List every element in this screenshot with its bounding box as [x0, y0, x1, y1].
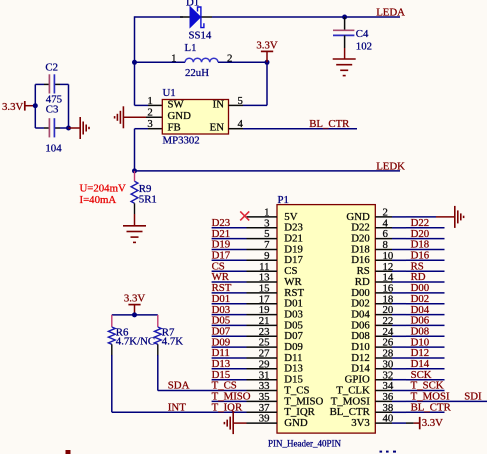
svg-text:PIN_Header_40PIN: PIN_Header_40PIN	[268, 439, 341, 449]
wire T_MISO net	[212, 400, 247, 402]
svg-text:3.3V: 3.3V	[2, 101, 23, 113]
svg-text:INT: INT	[168, 402, 186, 414]
pin 25 (D09) of P1	[247, 337, 303, 353]
svg-text:104: 104	[45, 142, 62, 154]
pin 7 (D19) of P1	[247, 239, 303, 255]
wire SDI net	[406, 400, 487, 402]
wire SDA net	[158, 390, 247, 392]
svg-text:LEDA: LEDA	[376, 7, 405, 19]
wire D04 net	[406, 314, 445, 316]
svg-text:EN: EN	[210, 122, 225, 134]
no-ERC marker on pin 1	[240, 211, 249, 220]
wire C3 bottom branch	[35, 127, 44, 129]
resistor R7	[154, 315, 183, 348]
op-amp U1 MP3302 body	[147, 87, 243, 146]
svg-text:U1: U1	[163, 87, 176, 99]
pin 1 (5V) of P1	[247, 207, 298, 223]
svg-text:C4: C4	[356, 28, 369, 40]
svg-text:I=40mA: I=40mA	[80, 194, 117, 206]
ground below R9	[123, 214, 146, 242]
wire D14 net	[406, 368, 445, 370]
svg-text:C3: C3	[46, 104, 59, 116]
wire D02 net	[406, 303, 445, 305]
pin 16 (D00) of P1	[351, 283, 406, 299]
svg-text:C2: C2	[45, 61, 58, 73]
svg-text:3.3V: 3.3V	[256, 40, 277, 52]
node junction 3.3V / C2C3	[33, 103, 38, 108]
wire D21 net	[212, 238, 247, 240]
pin 39 (GND) of P1	[247, 413, 308, 429]
node junction C3 / ground	[66, 126, 71, 131]
pin 5 (D21) of P1	[247, 228, 303, 244]
pin 13 (WR) of P1	[247, 272, 303, 288]
svg-text:LEDK: LEDK	[376, 161, 405, 173]
pin 15 (RST) of P1	[247, 283, 305, 299]
svg-text:1: 1	[171, 52, 176, 64]
wire D03 net	[212, 314, 247, 316]
svg-text:22uH: 22uH	[185, 67, 209, 79]
svg-text:BL_CTR: BL_CTR	[411, 402, 452, 414]
svg-text:MP3302: MP3302	[163, 134, 200, 146]
wire D07 net	[212, 335, 247, 337]
wire D09 net	[212, 346, 247, 348]
wire D13 net	[212, 368, 247, 370]
connector P1 body	[277, 205, 375, 434]
pin 22 (D06) of P1	[351, 315, 406, 331]
svg-text:3: 3	[147, 118, 152, 130]
power 3.3V above R6R7	[124, 293, 145, 315]
wire SW pin net	[134, 62, 136, 105]
svg-text:40: 40	[383, 413, 394, 425]
wire pin2 to ground	[406, 216, 436, 218]
svg-text:L1: L1	[185, 42, 197, 54]
ground at pin 2	[436, 206, 464, 228]
svg-text:U=204mV: U=204mV	[80, 183, 126, 195]
wire FB pin net	[134, 129, 136, 171]
annotation U=204mV I=40mA	[80, 183, 126, 207]
svg-text:2: 2	[227, 52, 232, 64]
wire D05 net	[212, 324, 247, 326]
svg-text:3.3V: 3.3V	[422, 417, 443, 429]
pin 29 (D13) of P1	[247, 358, 303, 374]
svg-text:GND: GND	[168, 110, 192, 122]
svg-text:2: 2	[147, 107, 152, 119]
ground right of C3	[69, 117, 90, 139]
wire INT net	[112, 411, 247, 413]
wire C2C3 right vertical	[68, 84, 70, 128]
svg-text:P1: P1	[278, 194, 289, 206]
wire R7 to SDA row	[157, 344, 159, 356]
wire D08 net	[406, 335, 445, 337]
pin 35 (T_MISO) of P1	[247, 391, 324, 407]
wire R6R7 top bus	[112, 314, 158, 316]
svg-text:GND: GND	[284, 417, 308, 429]
svg-text:5R1: 5R1	[139, 193, 157, 205]
power 3.3V left	[2, 101, 35, 113]
pin 26 (D10) of P1	[351, 337, 406, 353]
wire CS net	[212, 270, 247, 272]
pin 10 (D16) of P1	[351, 250, 406, 266]
svg-text:102: 102	[356, 41, 372, 53]
pin 6 (D20) of P1	[351, 228, 406, 244]
ground at pin 39	[224, 412, 246, 434]
svg-text:SS14: SS14	[189, 30, 212, 42]
pin 2 (GND) of P1	[346, 207, 406, 223]
svg-text:4.7K/NC: 4.7K/NC	[116, 336, 155, 348]
pin 34 (T_CLK) of P1	[336, 380, 406, 396]
pin 32 (GPIO) of P1	[345, 369, 406, 385]
resistor R6	[108, 315, 155, 348]
partial power mark bottom left	[66, 450, 71, 454]
ground below C4	[333, 48, 356, 76]
wire D16 net	[406, 259, 445, 261]
pin 8 (D18) of P1	[351, 239, 406, 255]
pin 33 (T_CS) of P1	[247, 380, 310, 396]
resistor R9	[131, 171, 157, 214]
wire EN pin net BL_CTR	[229, 128, 244, 130]
svg-text:SW: SW	[168, 99, 185, 111]
pin 27 (D11) of P1	[247, 348, 303, 364]
wire D17 net	[212, 259, 247, 261]
node junction left of L1	[132, 60, 137, 65]
diode D1	[180, 0, 212, 42]
pin 21 (D05) of P1	[247, 315, 303, 331]
pin 24 (D08) of P1	[351, 326, 406, 342]
wire D10 net	[406, 346, 445, 348]
pin 11 (CS) of P1	[247, 261, 298, 277]
wire top rail left segment	[135, 16, 184, 18]
pin 37 (T_IQR) of P1	[247, 402, 316, 418]
capacitor C2	[45, 61, 62, 105]
power 3.3V at pin 40	[406, 417, 443, 429]
wire D15 net	[212, 379, 247, 381]
svg-text:T_IQR: T_IQR	[212, 402, 243, 414]
svg-text:3V3: 3V3	[351, 417, 370, 429]
wire D20 net	[406, 238, 445, 240]
power 3.3V above L1 right	[256, 40, 277, 63]
pin 19 (D03) of P1	[247, 304, 303, 320]
wire D12 net	[406, 357, 445, 359]
wire C2C3 left vertical	[34, 84, 36, 128]
pin 20 (D04) of P1	[351, 304, 406, 320]
svg-text:SDI: SDI	[464, 391, 482, 403]
svg-text:IN: IN	[213, 99, 225, 111]
wire D11 net	[212, 357, 247, 359]
pin 18 (D02) of P1	[351, 293, 406, 309]
partial text marks bottom center-right	[380, 451, 383, 453]
wire BL_CTR net	[406, 411, 445, 413]
wire RS net	[406, 270, 445, 272]
wire WR net	[212, 281, 247, 283]
svg-text:FB: FB	[168, 122, 181, 134]
wire D23 net	[212, 227, 247, 229]
pin 3 (D23) of P1	[247, 217, 303, 233]
svg-text:BL_CTR: BL_CTR	[309, 118, 350, 130]
pin 31 (D15) of P1	[247, 369, 303, 385]
wire top rail right segment	[212, 16, 400, 18]
wire D22 net	[406, 227, 445, 229]
wire R6 to INT row	[111, 344, 113, 356]
svg-text:SDA: SDA	[168, 380, 190, 392]
wire D00 net	[406, 292, 445, 294]
node junction FB/R9	[132, 168, 137, 173]
node junction C4 tap	[342, 15, 347, 20]
pin 38 (BL_CTR) of P1	[330, 402, 406, 418]
pin 9 (D17) of P1	[247, 250, 304, 266]
wire D01 net	[212, 303, 247, 305]
pin 14 (RD) of P1	[355, 272, 406, 288]
capacitor C4	[333, 17, 372, 53]
wire D06 net	[406, 324, 445, 326]
pin 23 (D07) of P1	[247, 326, 304, 342]
wire T_SCK net	[406, 390, 445, 392]
pin 40 (3V3) of P1	[351, 413, 406, 429]
wire L1 row	[135, 61, 186, 63]
wire RD net	[406, 281, 445, 283]
node junction right of L1	[265, 60, 270, 65]
inductor L1	[171, 42, 232, 79]
capacitor C3	[45, 104, 62, 155]
svg-text:3.3V: 3.3V	[124, 293, 145, 305]
pin 17 (D01) of P1	[247, 293, 303, 309]
wire C2 top branch	[35, 83, 44, 85]
pin 36 (T_MOSI) of P1	[331, 391, 406, 407]
svg-text:39: 39	[259, 413, 270, 425]
node junction R6R7 top	[132, 312, 137, 317]
wire D18 net	[406, 249, 445, 251]
wire RST net	[212, 292, 247, 294]
wire LEDK net	[135, 170, 401, 172]
pin 30 (D14) of P1	[351, 358, 406, 374]
svg-text:D1: D1	[186, 0, 199, 9]
wire IN pin net	[229, 104, 244, 106]
wire D19 net	[212, 249, 247, 251]
pin 12 (RS) of P1	[357, 261, 406, 277]
svg-text:4.7K: 4.7K	[162, 336, 183, 348]
pin 4 (D22) of P1	[351, 217, 406, 233]
svg-text:1: 1	[147, 95, 152, 107]
pin 28 (D12) of P1	[351, 348, 406, 364]
wire SCK net	[406, 379, 445, 381]
ground at U1 GND pin	[115, 106, 163, 128]
